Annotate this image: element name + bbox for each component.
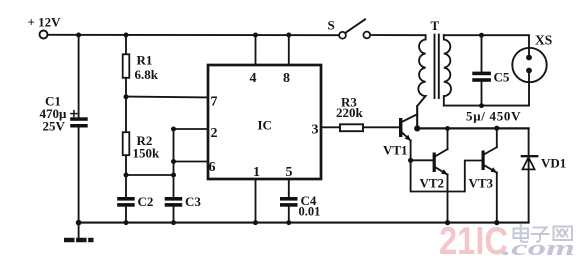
transistor VT2 <box>411 128 448 222</box>
svg-text:150k: 150k <box>133 146 161 161</box>
svg-text:4: 4 <box>250 71 257 86</box>
watermark zi glyph <box>532 228 549 242</box>
watermark 21IC <box>439 220 575 263</box>
node C5 top junction <box>479 33 484 38</box>
svg-text:VT1: VT1 <box>383 143 408 158</box>
node C3 rail junction <box>171 220 176 225</box>
node VT1 emitter junction <box>408 158 413 163</box>
svg-text:6.8k: 6.8k <box>135 67 159 82</box>
wire top rail <box>48 34 340 36</box>
svg-text:C5: C5 <box>494 70 510 85</box>
transistor VT3 <box>469 128 498 222</box>
wire primary bottom to bus <box>416 106 418 129</box>
node C1 top junction <box>76 33 81 38</box>
wire pin7 <box>126 96 208 99</box>
svg-text:IC: IC <box>258 118 272 133</box>
capacitor C4 <box>280 193 320 223</box>
watermark wang glyph <box>554 227 573 241</box>
wire collector bus <box>417 127 528 129</box>
wire bottom rail <box>79 222 529 224</box>
node R2 bottom junction <box>124 173 129 178</box>
node VT1 collector junction <box>414 125 420 131</box>
svg-text:VT2: VT2 <box>420 176 445 191</box>
svg-text:8: 8 <box>283 71 290 86</box>
wire pin1 <box>255 179 257 223</box>
svg-text:XS: XS <box>535 33 552 48</box>
node VT2 emitter rail junction <box>445 220 450 225</box>
node VT3 emitter rail junction <box>494 220 499 225</box>
svg-text:5μ/ 450V: 5μ/ 450V <box>466 109 521 124</box>
IC U1 <box>208 65 321 180</box>
watermark dian glyph <box>514 225 573 242</box>
svg-text:220k: 220k <box>336 105 364 120</box>
svg-text:.com: .com <box>502 235 575 260</box>
svg-text:T: T <box>431 18 440 33</box>
wire pin3 <box>321 126 340 128</box>
capacitor C1 <box>40 35 88 223</box>
wire switch to transformer <box>370 34 425 36</box>
svg-text:1: 1 <box>253 165 260 180</box>
capacitor C5 <box>472 35 510 105</box>
node R1 top junction <box>124 33 129 38</box>
ground <box>64 220 94 240</box>
svg-text:7: 7 <box>211 95 218 110</box>
wire R3 to VT1 base <box>364 126 399 128</box>
node vertical junction <box>171 173 176 178</box>
node pin7 junction <box>124 94 129 99</box>
wire secondary top to XS <box>444 35 529 57</box>
wire pin8 <box>288 35 290 65</box>
svg-text:2: 2 <box>211 126 218 141</box>
wire pin4 <box>255 35 257 65</box>
wire pin2 node down to C3 <box>173 129 175 197</box>
node C2 rail junction <box>124 220 129 225</box>
svg-text:25V: 25V <box>43 119 66 134</box>
resistor R2 <box>123 132 160 160</box>
terminal +12V <box>28 15 62 39</box>
node pin1 rail junction <box>253 220 258 225</box>
transformer T <box>417 18 451 129</box>
node pin6 junction <box>171 159 176 164</box>
transistor VT1 <box>383 114 417 160</box>
resistor R1 <box>123 35 159 82</box>
capacitor C3 <box>165 194 202 223</box>
svg-text:VD1: VD1 <box>541 156 566 171</box>
wire VT1 emitter to VT3 base <box>411 160 482 191</box>
svg-text:C3: C3 <box>185 194 201 209</box>
node pin4 junction <box>253 33 258 38</box>
svg-text:21IC: 21IC <box>439 220 508 263</box>
wire bus corner down to VD1 <box>528 128 530 222</box>
socket XS <box>512 33 552 106</box>
switch S <box>328 18 371 39</box>
svg-text:VT3: VT3 <box>469 176 494 191</box>
svg-text:S: S <box>328 18 335 33</box>
node pin2 junction <box>171 127 176 132</box>
node VT3 collector junction <box>494 126 499 131</box>
svg-text:0.01: 0.01 <box>299 205 321 219</box>
wire R2 bottom to C2 <box>125 155 127 197</box>
wire pin2 <box>174 128 209 130</box>
wire pin6 <box>174 161 209 163</box>
svg-text:+ 12V: + 12V <box>28 15 62 30</box>
wire pin5 upper <box>288 179 290 197</box>
svg-text:6: 6 <box>209 160 216 175</box>
capacitor C2 <box>117 194 153 223</box>
wire R1 bottom to R2 <box>125 78 127 132</box>
resistor R3 <box>336 95 364 132</box>
svg-text:R1: R1 <box>137 53 153 68</box>
svg-text:C2: C2 <box>138 194 154 209</box>
node pin5 rail junction <box>286 220 291 225</box>
node C5 bottom junction <box>479 103 484 108</box>
wire R2 bottom to node <box>126 174 174 176</box>
node VT2 collector junction <box>445 126 450 131</box>
wire secondary bottom <box>444 105 529 107</box>
svg-text:3: 3 <box>312 123 319 138</box>
node pin8 junction <box>286 33 291 38</box>
diode VD1 <box>522 156 566 171</box>
svg-text:5: 5 <box>286 165 293 180</box>
